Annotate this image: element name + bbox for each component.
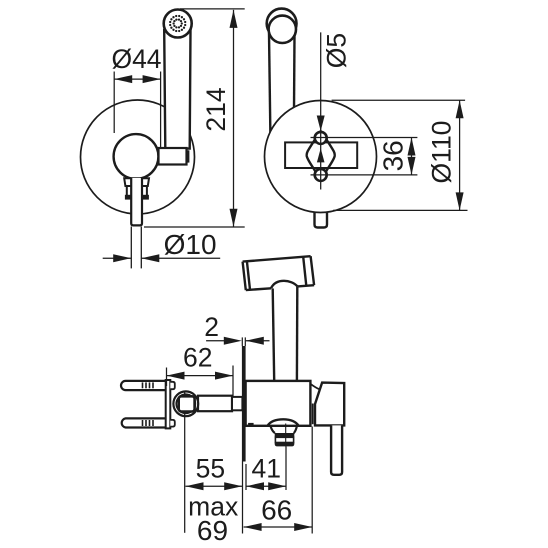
- svg-text:Ø44: Ø44: [111, 44, 161, 74]
- svg-text:2: 2: [204, 312, 219, 342]
- svg-text:Ø5: Ø5: [322, 33, 352, 68]
- svg-text:55: 55: [196, 453, 225, 483]
- svg-text:214: 214: [201, 87, 231, 131]
- svg-text:66: 66: [261, 494, 292, 525]
- svg-text:41: 41: [252, 453, 281, 483]
- svg-text:62: 62: [183, 342, 212, 372]
- svg-text:Ø10: Ø10: [164, 229, 217, 260]
- svg-text:Ø110: Ø110: [426, 121, 456, 184]
- svg-text:36: 36: [378, 140, 409, 171]
- svg-text:69: 69: [197, 515, 228, 546]
